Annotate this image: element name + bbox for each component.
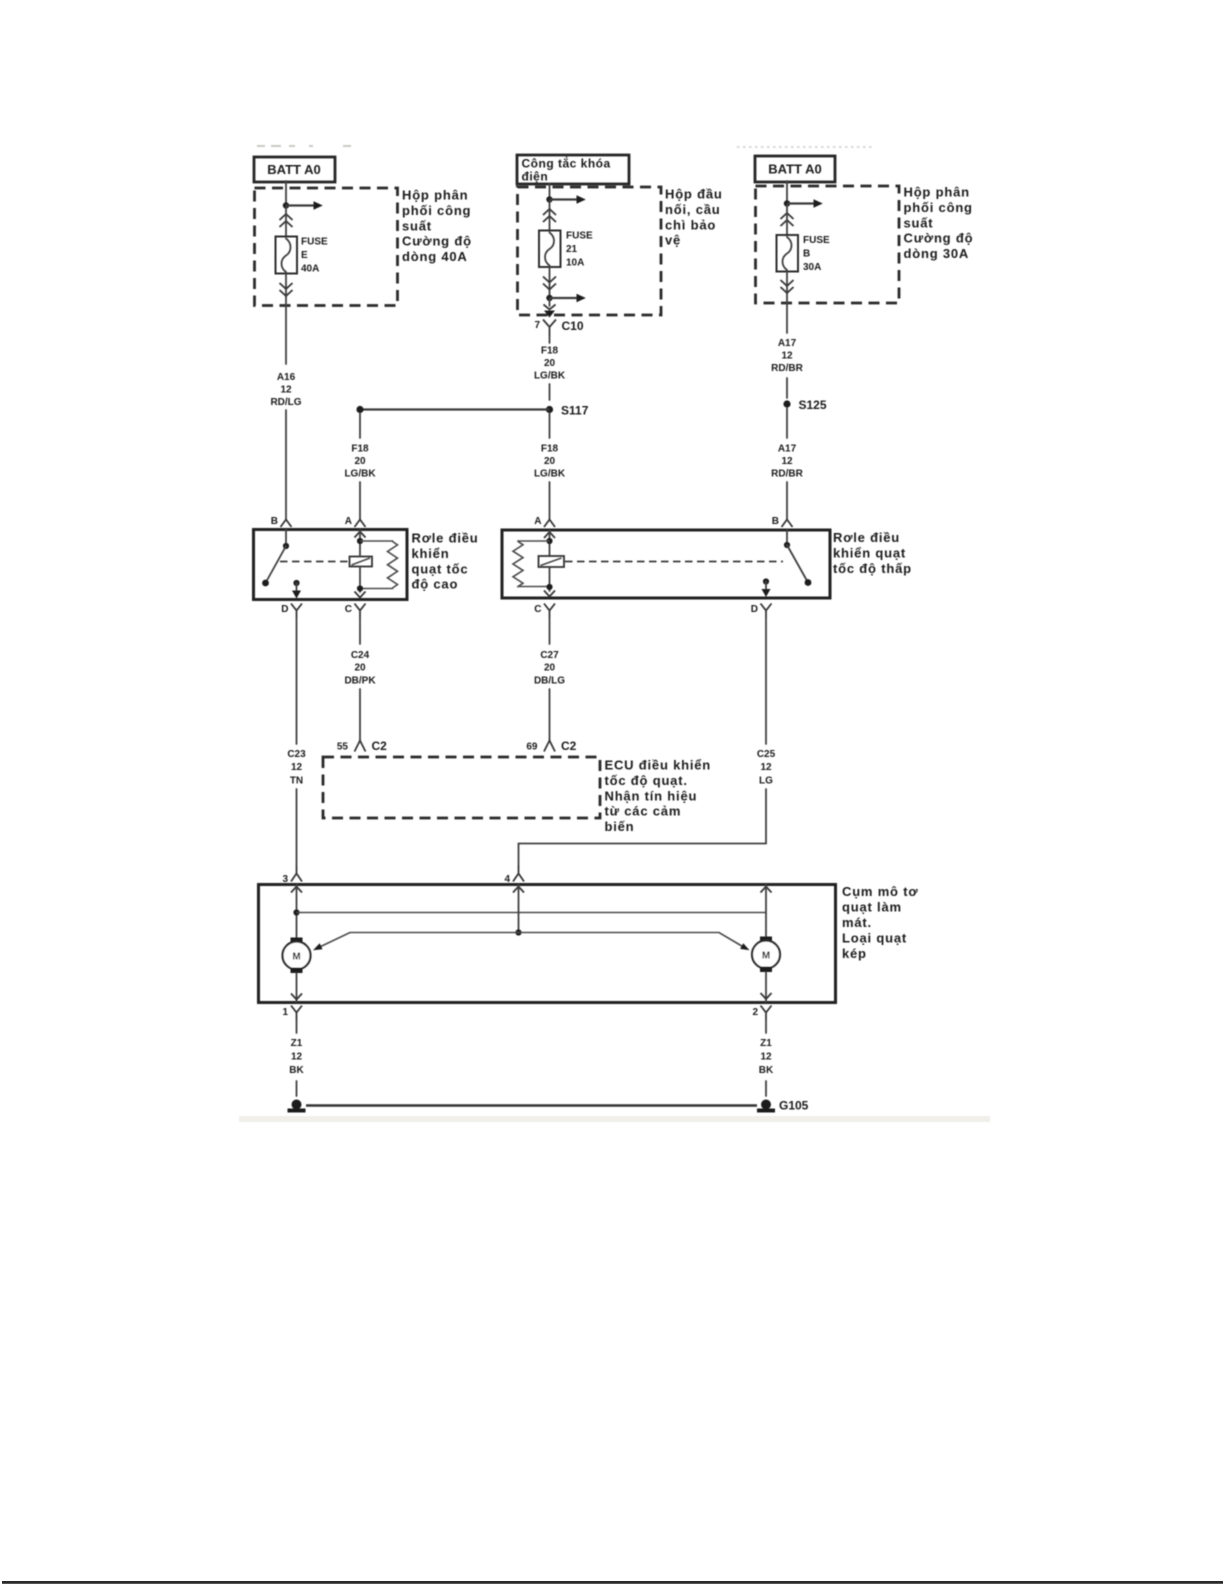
node BATT A0 (right) — [755, 156, 835, 182]
pin C connector (left relay) — [345, 604, 366, 619]
svg-text:D: D — [281, 604, 288, 615]
dashed actuator line (right relay) — [565, 561, 783, 563]
wire below fuse B — [786, 272, 788, 304]
pin A connector (right relay) — [544, 520, 555, 528]
double chevron down (left fuse) — [280, 283, 293, 296]
pin 3 inner chevron — [291, 887, 302, 893]
wire Z1 right lower segment — [765, 1081, 767, 1096]
dashed actuator line (left relay) — [280, 561, 348, 563]
scan artifact light band — [239, 1116, 990, 1122]
wire Z1 right upper segment — [765, 1021, 767, 1034]
scan artifact dotted line top-right — [737, 146, 872, 148]
motor 2 inner chevron — [761, 887, 772, 893]
wire pin3 to motor 1 — [296, 885, 298, 939]
pin 3 connector (motor box) — [282, 866, 302, 885]
bus wire motor1 to motor2 — [297, 912, 767, 914]
fuse B 30A (right) — [777, 235, 799, 272]
fuse 21 10A (middle) — [539, 231, 561, 268]
arrow right (middle box bottom) — [550, 294, 586, 303]
node BATT A0 (left) — [254, 157, 335, 182]
power distribution box (left, dashed) — [255, 188, 398, 306]
switch arm (right relay) — [784, 530, 811, 586]
svg-text:C10: C10 — [562, 319, 584, 333]
svg-text:C: C — [345, 604, 352, 615]
junction dot branch left — [356, 406, 363, 413]
svg-text:A: A — [534, 516, 541, 527]
svg-text:2: 2 — [752, 1007, 758, 1018]
svg-text:1: 1 — [282, 1007, 288, 1018]
wire from BATT A0 left down — [285, 181, 287, 203]
pin A inner chevron (left relay) — [355, 532, 366, 538]
wire C27 lower segment — [549, 689, 551, 740]
svg-text:D: D — [751, 604, 758, 615]
control line with arrows to both motors — [313, 933, 750, 951]
wire C25 lower segment with bend to pin 4 — [519, 789, 767, 866]
svg-text:S117: S117 — [561, 404, 589, 418]
wire below S125 — [786, 408, 788, 439]
motor M2 bottom chevron — [761, 993, 772, 999]
junction/fuse box (middle, dashed) — [518, 187, 662, 315]
wire motor 2 drop — [765, 885, 767, 938]
coil bottom node (right relay) — [546, 567, 552, 591]
pin C connector (right relay) — [534, 604, 555, 619]
wire C24 upper segment — [359, 618, 361, 644]
svg-text:M: M — [762, 951, 770, 962]
junction dot middle box top — [546, 196, 552, 202]
wire to box edge with down arrow — [544, 299, 556, 318]
svg-text:B: B — [772, 516, 779, 527]
ground symbol left — [288, 1100, 306, 1113]
pin 4 inner chevron — [513, 887, 524, 893]
wire C23 upper segment — [296, 618, 298, 744]
switch arm (left relay) — [262, 530, 289, 587]
arrow right (right box) — [787, 199, 823, 208]
connector C2 pin 55 — [337, 739, 387, 753]
double chevron up (right fuse) — [781, 213, 794, 226]
svg-text:M: M — [292, 952, 300, 963]
resistor (left relay) — [360, 541, 398, 589]
branch wire S117 to left — [360, 408, 550, 410]
svg-text:BATT A0: BATT A0 — [768, 162, 821, 177]
coil top node (right relay) — [546, 530, 552, 556]
fuse E 40A (left) — [276, 237, 298, 274]
wire Z1 left upper segment — [296, 1021, 298, 1034]
pin A connector (left relay) — [355, 520, 366, 528]
splice S125 — [783, 398, 826, 412]
wire into fuse 21 — [549, 201, 551, 231]
svg-text:S125: S125 — [799, 398, 827, 412]
wire below branch dot — [359, 413, 361, 438]
svg-text:55: 55 — [337, 742, 349, 753]
connector C10 pin 7 — [534, 319, 583, 336]
junction dot left box — [283, 202, 289, 208]
motor M1 bottom chevron — [291, 994, 302, 1000]
ECU box (dashed) — [323, 757, 600, 818]
wire A16 lower segment — [285, 410, 287, 520]
arrow right (middle box top) — [550, 195, 586, 204]
double chevron down (middle fuse) — [543, 277, 556, 290]
relay K1 high speed fan (left relay box) — [254, 530, 408, 600]
junction dot control line — [515, 929, 521, 935]
wire F18 below C10 — [549, 336, 551, 343]
pin D contact with arrow (left relay) — [292, 580, 301, 599]
wire below S117 — [549, 413, 551, 438]
pin D connector (left relay) — [281, 604, 302, 619]
wire pin4 drop — [518, 885, 520, 933]
arrow right (left box) — [286, 201, 323, 210]
wire segment above S117 — [549, 384, 551, 400]
wire A17 upper segment — [786, 303, 788, 333]
motor M1 (left fan motor) — [283, 938, 311, 1003]
wire into fuse — [285, 207, 287, 237]
wire C24 lower segment — [359, 689, 361, 740]
relay coil (right relay) — [539, 556, 565, 567]
fan motor assembly box — [259, 885, 836, 1003]
coil bottom node (left relay) — [357, 567, 363, 593]
node Cong tac khoa dien (ignition switch) — [517, 155, 629, 184]
coil top node (left relay) — [357, 530, 363, 557]
splice S117 — [546, 404, 589, 418]
power distribution box (right, dashed) — [756, 186, 900, 303]
wire below fuse 21 — [549, 267, 551, 296]
wire C25 upper segment — [765, 618, 767, 744]
double chevron up (middle fuse) — [543, 209, 556, 222]
svg-text:C2: C2 — [561, 739, 577, 753]
pin C inner chevron (right relay) — [544, 591, 555, 597]
wire A16 upper segment — [285, 306, 287, 365]
wire to pin A right relay — [549, 482, 551, 520]
svg-text:BATT A0: BATT A0 — [267, 162, 320, 177]
svg-text:C2: C2 — [372, 739, 388, 753]
ground symbol right G105 — [757, 1099, 809, 1113]
svg-text:A: A — [345, 516, 352, 527]
wire from BATT A0 right down — [786, 181, 788, 202]
pin D connector (right relay) — [751, 604, 772, 619]
svg-text:B: B — [271, 516, 278, 527]
wire to pin B right relay — [786, 482, 788, 520]
connector C2 pin 69 — [526, 739, 576, 753]
pin 2 connector (motor box) — [752, 1006, 771, 1021]
relay K2 low speed fan (right relay box) — [502, 530, 830, 598]
scan artifact dashes top-left — [257, 145, 351, 147]
pin B connector (right relay) — [782, 520, 793, 528]
pin D contact with arrow (right relay) — [762, 578, 771, 597]
pin B connector (left relay) — [281, 520, 292, 528]
page footer rule — [2, 1581, 1223, 1584]
motor M2 (right fan motor) — [752, 937, 780, 1003]
svg-text:7: 7 — [534, 320, 540, 331]
wire into fuse B — [786, 205, 788, 236]
wire segment above S125 — [786, 378, 788, 398]
pin 1 connector (motor box) — [282, 1006, 302, 1021]
junction dot motor bus — [293, 909, 299, 915]
wire from ignition switch down — [549, 184, 551, 198]
double chevron down (right fuse) — [781, 280, 794, 293]
junction dot middle box bottom — [546, 295, 552, 301]
pin A inner chevron (right relay) — [544, 532, 555, 538]
resistor (right relay) — [513, 541, 550, 587]
relay coil (left relay) — [350, 557, 373, 567]
svg-text:G105: G105 — [779, 1099, 809, 1113]
wire Z1 left lower segment — [296, 1081, 298, 1096]
svg-text:C: C — [534, 604, 541, 615]
wire below fuse — [285, 274, 287, 307]
pin 4 connector (motor box) — [504, 866, 524, 885]
wire C23 lower segment — [296, 789, 298, 866]
pin C inner chevron (left relay) — [355, 592, 366, 598]
double chevron up (left fuse) — [280, 214, 293, 227]
junction dot right box — [784, 200, 790, 206]
wire C27 upper segment — [549, 618, 551, 644]
ground bus wire — [306, 1104, 757, 1107]
wire to pin A left relay — [359, 482, 361, 520]
svg-text:69: 69 — [526, 742, 538, 753]
